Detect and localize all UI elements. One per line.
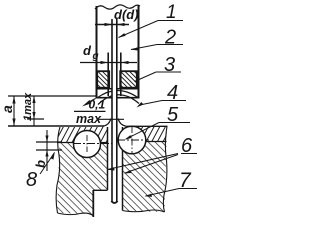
dimension a [13,96,15,126]
gasket band left (steep hatch) [58,127,108,143]
callout 1 [119,21,159,38]
gasket band right (steep hatch) [123,127,167,142]
lead wire [112,24,117,202]
torn left edge of plate [56,127,60,213]
callout 3 [135,72,157,82]
dimension 1max [33,96,35,126]
svg-text:5: 5 [167,104,179,126]
plate right (base) hatched body [123,127,168,212]
dimension d_g: line [80,62,137,64]
ring wire section circle left [74,131,101,158]
solder fillet left [103,119,111,127]
0,1 max note: arrow [82,100,92,107]
svg-text:g: g [92,51,99,62]
lead wire end cap [111,201,117,203]
plate top surface line [8,125,104,127]
fillet top reference line (1max bottom) [27,118,44,120]
b extension line upper [36,141,62,143]
svg-text:6: 6 [181,135,193,157]
svg-text:8: 8 [26,169,37,191]
svg-text:4: 4 [167,82,178,104]
component body right wall [138,5,140,98]
glass seal block left [97,71,109,88]
seal support line under blocks [97,88,138,90]
svg-text:3: 3 [164,54,175,76]
svg-text:d(d): d(d) [114,7,139,22]
gasket bottom boundary right [146,141,167,143]
svg-text:1: 1 [166,2,177,23]
meniscus arc upper [97,91,139,99]
counterbore cutout [94,191,107,217]
svg-text:0,1: 0,1 [89,98,106,112]
glass seal block right [120,71,137,88]
svg-text:max: max [76,112,102,126]
dimension d at top: line [95,24,129,26]
svg-text:2: 2 [164,27,176,49]
component body left wall [96,6,98,98]
torn right edge of plate [163,127,167,213]
ring wire section circle right [118,126,146,154]
hole wall right [122,127,124,211]
pin thick section right line [120,53,122,97]
callout 7 [146,189,180,197]
d arrows [105,23,113,26]
body top break (wavy) line [95,5,140,9]
callout 8 [40,153,55,175]
b extension line lower [36,149,62,151]
centerline left circle [73,143,113,145]
component body bottom [96,97,140,99]
callout 5 [126,123,159,140]
plate left (base) hatched body [57,127,108,216]
svg-text:b: b [33,160,48,168]
callout 6 leader B [125,155,178,174]
centerline right circle [117,139,149,141]
dimension b [46,130,48,171]
svg-text:d: d [83,43,92,58]
meniscus arc lower [98,95,139,105]
pin thick section left line [107,53,109,97]
torn bottom edge left plate [58,213,94,216]
solder fillet right [118,119,126,127]
torn bottom edge right plate [123,210,165,212]
svg-text:7: 7 [179,169,192,192]
svg-text:a: a [0,105,15,113]
gasket bottom boundary left [57,142,75,144]
hole wall left [107,127,109,190]
svg-text:1max: 1max [22,92,34,121]
body bottom reference line (a top) [8,95,96,97]
callout 4 [142,101,162,105]
callout 2 [131,45,157,50]
fraction bar [74,110,106,112]
callout 6 leader A [108,154,179,170]
